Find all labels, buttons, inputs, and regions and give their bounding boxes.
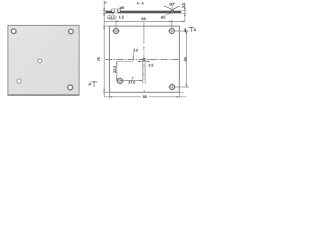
svg-text:80: 80 xyxy=(143,95,147,99)
plan hole bottom-left offset xyxy=(116,77,124,85)
plan hole bottom-right xyxy=(168,83,189,91)
plan hole top-left xyxy=(112,21,120,34)
svg-text:A: A xyxy=(88,82,91,87)
counterbore balloon o9.5 xyxy=(107,13,116,19)
plan view plate outline xyxy=(109,26,183,92)
svg-text:1.5: 1.5 xyxy=(119,14,125,19)
horizontal dimension 27.5 xyxy=(120,77,143,84)
first-angle mark xyxy=(133,27,137,31)
svg-text:22.5: 22.5 xyxy=(113,66,117,73)
section dimension line 64 xyxy=(104,16,185,23)
svg-text:3.5: 3.5 xyxy=(133,49,138,53)
vertical dimension 22.5 xyxy=(113,61,134,81)
svg-text:A - A: A - A xyxy=(137,2,145,6)
svg-text:ø5: ø5 xyxy=(161,14,166,19)
thickness dimension 2 xyxy=(103,0,108,21)
photo hole top-right xyxy=(69,29,74,34)
photo hole bottom-right xyxy=(68,85,73,90)
countersink cone xyxy=(164,5,181,15)
counterbore diameter label o5 xyxy=(117,5,125,11)
plate photo xyxy=(8,25,79,95)
center hole centerline horizontal xyxy=(106,59,180,61)
section marker A top-right xyxy=(185,27,196,32)
center hole label 3.5 right xyxy=(138,61,154,68)
svg-text:ø9,5: ø9,5 xyxy=(109,16,115,20)
right thickness dimension 4 xyxy=(181,3,186,22)
hole diameter label o5 right xyxy=(161,13,171,19)
svg-text:75: 75 xyxy=(97,57,101,61)
right dimension 64 xyxy=(183,31,187,87)
photo hole top-left xyxy=(11,29,16,34)
photo hole center xyxy=(38,59,42,63)
svg-text:27.5: 27.5 xyxy=(128,81,135,85)
countersink angle label 90 xyxy=(169,1,175,6)
plan center hole xyxy=(143,59,146,62)
svg-text:+: + xyxy=(106,1,108,4)
counterbore depth label 1.5 xyxy=(119,14,125,19)
photo hole bottom-left xyxy=(17,79,21,83)
svg-text:64: 64 xyxy=(141,16,146,21)
section A-A label xyxy=(137,2,145,6)
svg-text:A: A xyxy=(194,27,197,32)
center hole edge extension lines xyxy=(143,61,146,83)
center hole centerline vertical xyxy=(143,22,145,92)
center hole dimension 3.5 top xyxy=(132,49,138,60)
section marker A bottom-left xyxy=(88,82,97,88)
section bar (plate cross-section) xyxy=(106,9,182,14)
left dimension 75 xyxy=(97,21,109,97)
plan hole top-right xyxy=(168,21,189,34)
svg-text:3.5: 3.5 xyxy=(148,64,153,68)
svg-text:ø5: ø5 xyxy=(119,5,124,10)
bottom dimension 80 xyxy=(105,92,187,99)
